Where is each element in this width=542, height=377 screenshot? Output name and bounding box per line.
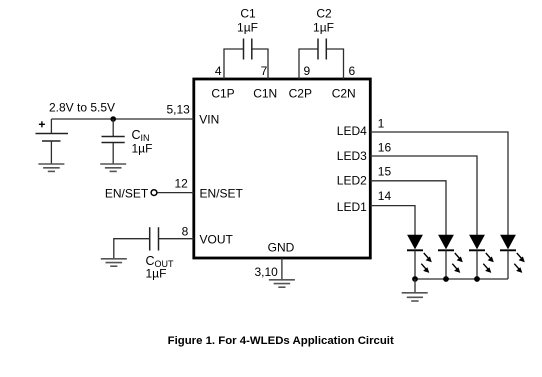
svg-text:C1: C1 bbox=[240, 7, 256, 21]
svg-text:16: 16 bbox=[378, 141, 392, 155]
wire LED3 net bbox=[370, 156, 477, 235]
node EN/SET terminal bbox=[151, 190, 157, 196]
svg-text:1µF: 1µF bbox=[132, 142, 153, 156]
svg-text:1µF: 1µF bbox=[146, 266, 167, 280]
svg-text:9: 9 bbox=[304, 64, 311, 78]
capacitor CIN bbox=[102, 137, 125, 143]
node VIN junction bbox=[110, 116, 116, 122]
wire LED2 net bbox=[370, 181, 446, 235]
svg-text:C2: C2 bbox=[316, 7, 332, 21]
capacitor COUT bbox=[150, 227, 159, 250]
ground COUT bbox=[101, 259, 127, 266]
node bus junction 1 bbox=[412, 276, 418, 282]
svg-text:EN/SET: EN/SET bbox=[105, 186, 149, 200]
svg-text:VIN: VIN bbox=[199, 113, 219, 127]
wire pin4 stub bbox=[223, 49, 225, 79]
node bus junction 2 bbox=[443, 276, 449, 282]
wire bus ground stub bbox=[414, 279, 416, 293]
LED D2 bbox=[438, 235, 463, 279]
op-amp U1 IC body bbox=[194, 79, 370, 258]
svg-text:4: 4 bbox=[215, 64, 222, 78]
svg-text:EN/SET: EN/SET bbox=[200, 186, 244, 200]
svg-text:1µF: 1µF bbox=[313, 21, 334, 35]
svg-text:5,13: 5,13 bbox=[166, 103, 190, 117]
svg-text:1µF: 1µF bbox=[237, 21, 258, 35]
wire pin9 stub bbox=[298, 49, 300, 79]
svg-text:LED3: LED3 bbox=[337, 149, 367, 163]
svg-text:3,10: 3,10 bbox=[254, 265, 278, 279]
wire CIN bottom lead bbox=[112, 143, 114, 165]
svg-text:C1N: C1N bbox=[253, 87, 277, 101]
wire EN/SET bbox=[157, 192, 193, 194]
wire COUT left lead bbox=[114, 239, 150, 259]
node bus junction 3 bbox=[474, 276, 480, 282]
wire CIN top lead bbox=[112, 119, 114, 137]
ground CIN bbox=[100, 164, 126, 171]
wire GND stub bbox=[281, 258, 283, 280]
svg-text:6: 6 bbox=[349, 64, 356, 78]
svg-text:LED4: LED4 bbox=[337, 124, 367, 138]
LED D1 bbox=[407, 235, 432, 279]
capacitor C1 bbox=[244, 39, 252, 60]
svg-text:C2P: C2P bbox=[289, 87, 312, 101]
svg-text:VOUT: VOUT bbox=[200, 233, 234, 247]
svg-text:CIN: CIN bbox=[132, 128, 150, 143]
svg-text:8: 8 bbox=[182, 225, 189, 239]
wire battery bottom lead bbox=[50, 141, 52, 164]
wire C2 right lead bbox=[326, 48, 344, 50]
svg-text:7: 7 bbox=[261, 64, 268, 78]
ground LED bus bbox=[402, 293, 428, 301]
wire C1 right lead bbox=[252, 48, 269, 50]
ground battery bbox=[38, 164, 64, 171]
wire LED1 net bbox=[370, 206, 415, 235]
capacitor C2 bbox=[318, 39, 326, 60]
svg-text:LED1: LED1 bbox=[337, 200, 367, 214]
svg-text:LED2: LED2 bbox=[337, 174, 367, 188]
wire LED cathode bus bbox=[415, 278, 508, 280]
wire VIN bbox=[51, 118, 193, 120]
svg-text:2.8V to 5.5V: 2.8V to 5.5V bbox=[49, 101, 115, 115]
svg-text:C2N: C2N bbox=[332, 87, 356, 101]
wire C2 left lead bbox=[298, 48, 318, 50]
svg-text:14: 14 bbox=[378, 189, 392, 203]
svg-text:Figure 1. For 4-WLEDs Applicat: Figure 1. For 4-WLEDs Application Circui… bbox=[168, 335, 394, 347]
LED D4 bbox=[500, 235, 525, 279]
wire pin7 stub bbox=[267, 49, 269, 79]
ground GND bbox=[269, 280, 295, 287]
wire battery top lead bbox=[50, 119, 52, 134]
wire LED4 net bbox=[370, 132, 508, 235]
svg-text:12: 12 bbox=[174, 177, 188, 191]
wire pin6 stub bbox=[343, 49, 345, 79]
svg-text:C1P: C1P bbox=[211, 87, 234, 101]
svg-text:15: 15 bbox=[378, 165, 392, 179]
LED D3 bbox=[469, 235, 494, 279]
wire C1 left lead bbox=[223, 48, 243, 50]
svg-text:1: 1 bbox=[378, 117, 385, 131]
svg-text:GND: GND bbox=[268, 240, 295, 254]
wire VOUT bbox=[159, 238, 194, 240]
battery V1 bbox=[36, 134, 69, 142]
battery plus sign bbox=[39, 121, 45, 127]
